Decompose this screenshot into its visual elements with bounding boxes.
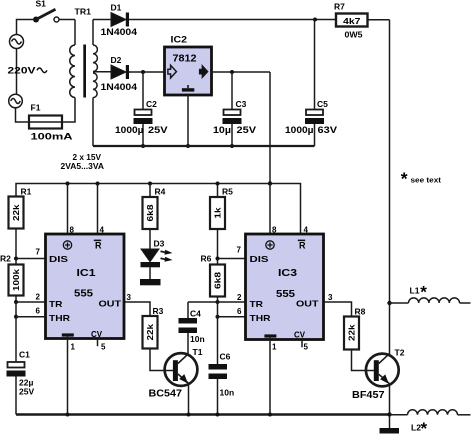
svg-text:25V: 25V [148,125,168,135]
fuse F1 [29,116,62,129]
svg-text:BF457: BF457 [352,390,385,401]
transformer TR1 primary [74,20,76,46]
capacitor C1 [15,317,17,362]
svg-text:6: 6 [36,307,41,316]
svg-text:IC3: IC3 [278,267,297,279]
svg-text:C6: C6 [220,352,231,362]
wire [129,71,165,73]
svg-text:D2: D2 [111,55,122,65]
wire [59,19,75,21]
switch S1 [33,17,39,23]
node [216,300,220,304]
ground rail power [93,145,315,147]
svg-text:THR: THR [250,313,271,323]
wire DIS IC1 [16,258,46,260]
svg-text:4: 4 [304,226,309,235]
AC source lower [9,94,23,108]
transistor T1 [165,353,198,386]
svg-text:1: 1 [71,343,76,352]
svg-text:R8: R8 [355,307,366,317]
ground [389,415,391,429]
ground [140,279,161,285]
svg-text:10µ: 10µ [213,125,231,135]
wire OUT IC3 to R8 [324,302,352,317]
svg-text:D3: D3 [154,239,165,249]
svg-text:5: 5 [304,343,309,352]
capacitor C4 [187,302,189,318]
svg-text:IC2: IC2 [171,35,188,46]
wire tap [93,71,111,73]
svg-text:OUT: OUT [296,299,319,309]
node [268,413,272,417]
regulator IC2 [165,47,212,95]
LED D3 [141,249,159,262]
svg-text:5: 5 [101,343,106,352]
node [14,257,18,261]
svg-text:22k: 22k [145,324,155,341]
node [387,301,391,305]
svg-text:T1: T1 [193,347,203,357]
inductor L2 [390,414,408,416]
svg-text:R4: R4 [155,187,166,197]
svg-text:1N4004: 1N4004 [101,82,138,92]
node [186,144,190,148]
node [387,412,391,416]
svg-text:CV: CV [91,329,102,339]
svg-text:63V: 63V [318,125,338,135]
wire [17,20,34,35]
svg-text:4k7: 4k7 [343,16,361,26]
inductor L1 [390,302,409,304]
IC1 555 [46,234,125,415]
svg-text:R1: R1 [21,187,32,197]
wire OUT IC1 to R3 [124,302,150,316]
svg-text:6: 6 [237,307,242,316]
svg-text:220V: 220V [8,66,36,76]
svg-text:TR: TR [49,299,63,309]
svg-text:C2: C2 [146,99,157,109]
svg-text:R: R [299,241,306,251]
resistor R5 [217,184,219,198]
node [141,144,145,148]
resistor R3 [143,316,158,349]
svg-text:R5: R5 [222,187,233,197]
svg-text:1N4004: 1N4004 [101,27,138,37]
wire IC2 gnd [187,95,189,146]
wire pin8 IC3 [269,184,271,235]
node [216,413,220,417]
node [216,257,220,261]
svg-text:2: 2 [36,293,41,302]
svg-text:7812: 7812 [173,54,197,65]
svg-text:TR1: TR1 [75,7,92,17]
resistor R6 [217,259,219,265]
Vcc rail [16,184,301,235]
node [141,70,145,74]
capacitor C2 [142,72,144,110]
transformer TR1 secondary [92,20,94,46]
transistor T2 [366,354,399,387]
svg-text:*: * [401,169,408,189]
svg-text:R2: R2 [0,254,11,264]
svg-text:TR: TR [250,299,264,309]
svg-text:*: * [421,419,428,437]
svg-text:22k: 22k [347,324,357,341]
capacitor C6 [217,317,219,364]
svg-text:R6: R6 [201,254,212,264]
node [66,413,70,417]
svg-text:2: 2 [237,293,242,302]
wire pin8 IC1 [67,184,69,235]
svg-text:22k: 22k [11,204,21,221]
svg-text:8: 8 [70,226,75,235]
diode D1 [93,19,111,21]
svg-text:BC547: BC547 [149,389,183,400]
IC3 555 [246,234,324,415]
resistor R2 [15,259,17,265]
wire [16,49,18,95]
svg-text:7: 7 [237,246,242,255]
svg-text:IC1: IC1 [77,267,96,279]
svg-text:L1: L1 [410,286,420,296]
node [187,413,191,417]
svg-text:1: 1 [272,343,277,352]
node [14,300,18,304]
svg-text:D1: D1 [111,3,122,13]
node [216,315,220,319]
svg-text:1k: 1k [213,207,223,218]
svg-text:1000µ: 1000µ [285,125,314,135]
svg-text:555: 555 [276,288,295,300]
svg-text:DIS: DIS [250,254,269,264]
wire [16,98,76,123]
svg-text:see text: see text [411,176,442,185]
svg-text:OUT: OUT [99,299,122,309]
svg-text:THR: THR [49,313,70,323]
svg-text:4: 4 [100,226,105,235]
capacitor C3 [231,72,233,110]
wire [129,19,336,21]
svg-text:3: 3 [328,293,333,302]
capacitor C5 [314,20,316,110]
svg-text:DIS: DIS [49,254,68,264]
node [96,182,100,186]
wire THR IC1 [16,316,46,318]
svg-text:555: 555 [74,288,93,300]
diode D2 [111,65,126,79]
resistor R1 [9,197,24,229]
svg-text:*: * [420,283,427,302]
node [216,182,220,186]
wire TR IC3 [188,301,246,303]
wire HT vertical [389,20,391,356]
resistor R4 [149,184,151,198]
svg-text:C1: C1 [19,350,30,360]
svg-text:C3: C3 [236,99,247,109]
svg-text:1000µ: 1000µ [115,125,144,135]
svg-text:6k8: 6k8 [145,204,155,221]
transformer core [83,45,86,98]
wire DIS IC3 [218,258,247,260]
svg-text:10n: 10n [190,334,205,344]
node [230,144,234,148]
svg-text:25V: 25V [237,125,257,135]
wire pin4 IC1 [97,184,99,235]
node [313,18,317,22]
wire 12V down [269,72,271,184]
svg-text:R3: R3 [153,306,164,316]
svg-text:C4: C4 [190,309,201,319]
node [66,182,70,186]
AC source upper [10,35,24,49]
svg-text:8: 8 [272,226,277,235]
svg-text:R7: R7 [334,2,345,12]
svg-text:100mA: 100mA [31,132,74,142]
svg-text:25V: 25V [19,387,34,397]
svg-text:3: 3 [127,293,132,302]
node [148,182,152,186]
svg-text:C5: C5 [317,99,328,109]
svg-text:100k: 100k [11,269,21,291]
svg-text:S1: S1 [36,0,47,9]
wire TR IC1 [16,301,46,303]
svg-text:R: R [95,241,102,251]
svg-text:7: 7 [36,248,41,257]
svg-text:F1: F1 [31,103,41,113]
wire THR IC3 [218,302,247,317]
resistor R8 [344,317,359,350]
node [230,70,234,74]
svg-text:10n: 10n [220,388,235,398]
node [14,315,18,319]
svg-text:6k8: 6k8 [213,272,223,289]
svg-text:CV: CV [294,329,305,339]
LED arrows [161,251,168,253]
resistor R7 [336,14,368,27]
node [268,181,272,185]
svg-text:2VA5...3VA: 2VA5...3VA [61,161,105,171]
wire [15,302,17,317]
svg-text:0W5: 0W5 [345,30,363,40]
svg-text:T2: T2 [395,348,405,358]
wire IC2 out [212,71,271,73]
bottom ground rail [16,413,390,415]
